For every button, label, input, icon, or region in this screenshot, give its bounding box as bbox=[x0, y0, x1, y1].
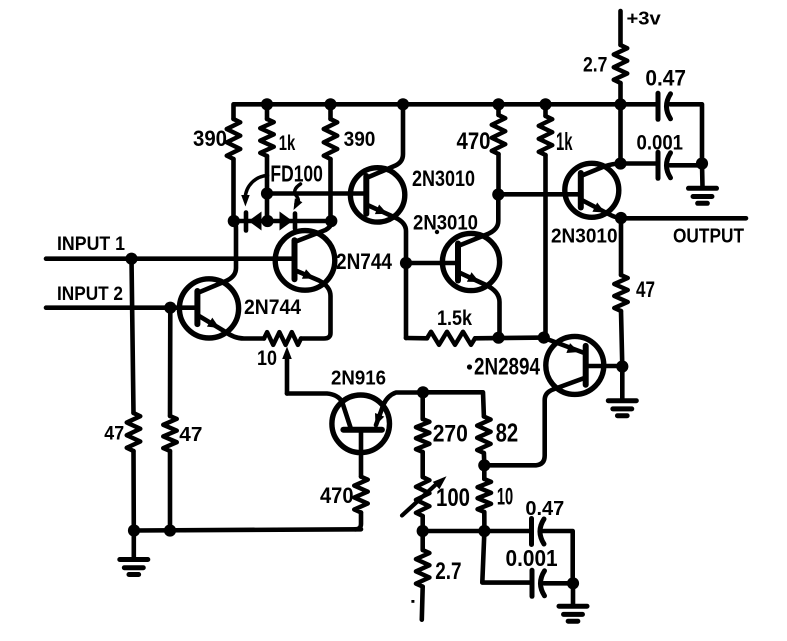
svg-text:10: 10 bbox=[497, 484, 513, 511]
svg-text:OUTPUT: OUTPUT bbox=[673, 226, 745, 248]
svg-text:100: 100 bbox=[436, 484, 470, 512]
svg-text:10: 10 bbox=[257, 347, 277, 370]
svg-text:2N3010: 2N3010 bbox=[551, 224, 618, 247]
svg-text:2N744: 2N744 bbox=[336, 249, 393, 274]
svg-text:2N3010: 2N3010 bbox=[413, 212, 478, 235]
svg-text:2.7: 2.7 bbox=[435, 559, 461, 585]
svg-text:1k: 1k bbox=[279, 131, 296, 155]
svg-text:0.47: 0.47 bbox=[525, 498, 564, 520]
svg-text:2N2894: 2N2894 bbox=[474, 355, 540, 381]
svg-text:INPUT 2: INPUT 2 bbox=[57, 283, 123, 305]
svg-text:2N916: 2N916 bbox=[331, 368, 386, 390]
svg-text:390: 390 bbox=[193, 126, 227, 151]
svg-text:82: 82 bbox=[496, 418, 519, 448]
svg-text:2.7: 2.7 bbox=[583, 54, 607, 77]
svg-text:470: 470 bbox=[457, 128, 491, 155]
svg-text:2N3010: 2N3010 bbox=[412, 166, 475, 191]
svg-text:0.47: 0.47 bbox=[645, 66, 686, 91]
svg-text:47: 47 bbox=[179, 423, 202, 446]
svg-text:390: 390 bbox=[344, 128, 376, 151]
svg-text:FD100: FD100 bbox=[270, 160, 323, 186]
svg-text:2N744: 2N744 bbox=[244, 296, 301, 319]
svg-text:0.001: 0.001 bbox=[637, 131, 684, 154]
svg-text:1.5k: 1.5k bbox=[437, 307, 472, 330]
svg-text:INPUT 1: INPUT 1 bbox=[57, 233, 125, 255]
svg-text:47: 47 bbox=[636, 277, 655, 302]
svg-text:0.001: 0.001 bbox=[506, 545, 558, 571]
svg-text:470: 470 bbox=[320, 483, 354, 508]
svg-text:47: 47 bbox=[104, 424, 124, 445]
svg-text:1k: 1k bbox=[556, 128, 573, 156]
svg-text:+3v: +3v bbox=[627, 8, 661, 28]
svg-text:270: 270 bbox=[433, 421, 468, 448]
